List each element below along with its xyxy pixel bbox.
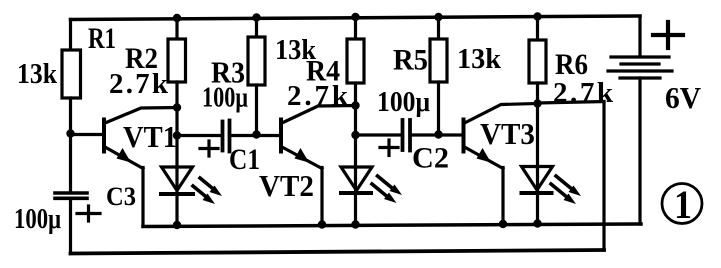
node VT1 collector: [173, 103, 181, 111]
node gnd VT2 emitter: [318, 220, 326, 228]
svg-text:2.7k: 2.7k: [109, 68, 169, 100]
svg-text:6V: 6V: [665, 80, 702, 115]
svg-text:R1: R1: [88, 22, 116, 55]
svg-text:R5: R5: [393, 44, 428, 77]
wire ring feedback: bottom return: [71, 250, 605, 254]
wire battery positive lead: [638, 16, 641, 56]
wire ring feedback: VT3 collector to right: [538, 102, 604, 104]
wire battery negative lead: [638, 78, 641, 224]
svg-text:C3: C3: [106, 182, 136, 211]
node C2 left: [351, 131, 359, 139]
resistor R5: [430, 17, 447, 135]
capacitor C2: [356, 120, 463, 151]
node gnd LED2: [351, 220, 359, 228]
battery polarity +: [653, 22, 683, 48]
svg-text:VT2: VT2: [259, 168, 314, 203]
svg-text:VT1: VT1: [123, 119, 177, 154]
svg-text:100μ: 100μ: [14, 204, 61, 235]
C3 polarity +: [77, 206, 100, 221]
capacitor C1: [177, 121, 280, 152]
battery GB 6V: [608, 57, 672, 78]
resistor R2: [168, 18, 186, 168]
LED VD2: [341, 167, 402, 226]
C1 polarity +: [200, 141, 218, 156]
wire top positive rail: [71, 16, 641, 20]
node gnd LED3: [533, 219, 541, 227]
node gnd VT3 emitter: [499, 220, 507, 228]
wire ground rail: [143, 224, 641, 227]
junction node dots: [66, 12, 541, 229]
node C1 left: [173, 131, 181, 139]
svg-text:2.7k: 2.7k: [553, 77, 614, 109]
node top rail R3: [252, 13, 260, 21]
svg-text:C1: C1: [229, 143, 260, 176]
resistor R6: [529, 17, 546, 169]
node top rail R4: [351, 13, 359, 21]
resistor R3: [248, 18, 265, 135]
node top rail R6: [533, 12, 541, 20]
wire ring feedback: left vertical up to C3: [69, 201, 72, 254]
transistor VT3: [464, 104, 538, 226]
C2 polarity +: [380, 140, 398, 156]
transistor VT2: [281, 106, 356, 226]
node top rail R2: [173, 14, 181, 22]
wire ring feedback: right vertical: [602, 102, 605, 251]
transistor VT1: [71, 108, 178, 227]
figure number 1 circled: [662, 182, 702, 227]
LED VD3: [522, 167, 582, 225]
svg-text:C2: C2: [412, 142, 449, 175]
svg-text:100μ: 100μ: [202, 83, 248, 114]
resistor R1: [62, 20, 81, 192]
node VT3 collector: [533, 99, 541, 107]
LED VD1: [161, 167, 222, 226]
svg-text:VT3: VT3: [480, 116, 535, 151]
node R3 base VT2: [252, 130, 260, 138]
svg-text:1: 1: [674, 182, 692, 227]
node top rail R5: [434, 13, 442, 21]
svg-text:2.7k: 2.7k: [287, 80, 349, 112]
node VT2 collector: [351, 101, 359, 109]
capacitor C3: [55, 193, 87, 198]
svg-text:13k: 13k: [17, 58, 58, 90]
svg-text:13k: 13k: [457, 43, 502, 75]
node gnd LED1: [173, 221, 181, 229]
svg-text:100μ: 100μ: [377, 86, 430, 118]
node R5 base VT3: [434, 130, 442, 138]
node VT1 base: [66, 129, 74, 137]
resistor R4: [347, 17, 364, 168]
